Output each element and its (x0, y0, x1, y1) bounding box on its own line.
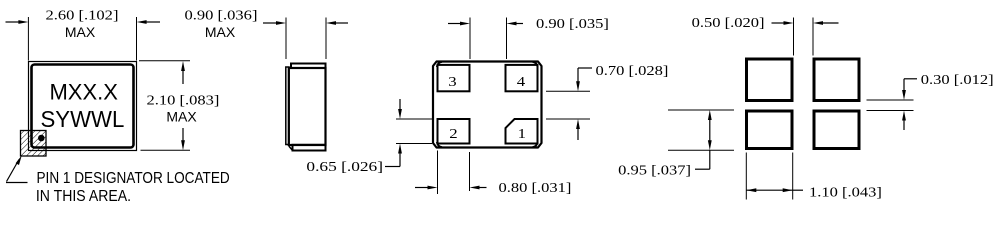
side view body (289, 68, 326, 145)
svg-text:3: 3 (448, 74, 457, 89)
svg-text:1: 1 (518, 126, 526, 141)
marking text SYWWL (40, 107, 124, 132)
svg-text:2.60 [.102]: 2.60 [.102] (46, 7, 119, 23)
bottom view outline with castellated corners (433, 62, 542, 148)
svg-text:MAX: MAX (166, 109, 197, 125)
land pattern pad bottom-left (747, 111, 793, 149)
leader arrow to pin 1 area (6, 155, 28, 182)
dimension 0.90 pad gap (448, 16, 609, 59)
side view lid (291, 64, 326, 69)
land pattern pad top-left (747, 59, 793, 101)
svg-text:MAX: MAX (205, 24, 236, 40)
svg-text:0.90 [.035]: 0.90 [.035] (536, 16, 609, 32)
pin 1 designator hatched square (21, 131, 47, 157)
svg-text:0.95 [.037]: 0.95 [.037] (618, 163, 691, 179)
svg-text:2.10 [.083]: 2.10 [.083] (147, 93, 220, 109)
note text PIN 1 DESIGNATOR (36, 170, 230, 205)
dimension 0.80 pad width (415, 151, 571, 196)
land pattern pad top-right (814, 59, 859, 101)
land pattern pad bottom-right (814, 111, 859, 149)
svg-text:0.65 [.026]: 0.65 [.026] (306, 160, 383, 175)
svg-text:4: 4 (517, 74, 526, 89)
dimension 0.90 MAX side view width (185, 7, 348, 59)
dimension 0.95 pad height land (618, 110, 734, 178)
svg-text:2: 2 (449, 126, 457, 141)
svg-text:MAX: MAX (65, 24, 96, 40)
dimension 1.10 pad width land (746, 153, 882, 201)
dimension 0.30 row gap (867, 72, 994, 130)
side view left end cap (286, 67, 289, 145)
pad 1 with chamfer (506, 119, 538, 144)
side view bottom lip (289, 145, 326, 151)
top view outer outline (29, 62, 137, 151)
svg-text:PIN 1 DESIGNATOR LOCATED: PIN 1 DESIGNATOR LOCATED (37, 170, 230, 187)
svg-text:0.70 [.028]: 0.70 [.028] (596, 63, 669, 79)
pad 2 (438, 119, 470, 144)
svg-text:SYWWL: SYWWL (40, 107, 124, 132)
marking text MXX.X (49, 79, 118, 104)
svg-text:0.50 [.020]: 0.50 [.020] (692, 15, 765, 31)
dimension 2.10 height (139, 61, 219, 151)
top view inner body outline (32, 65, 134, 148)
dimension 0.70 pad row gap (546, 63, 668, 140)
svg-text:0.30 [.012]: 0.30 [.012] (921, 72, 994, 88)
pad 4 (506, 65, 538, 91)
svg-text:IN THIS AREA.: IN THIS AREA. (36, 187, 131, 205)
svg-text:MXX.X: MXX.X (49, 79, 118, 104)
svg-text:0.90 [.036]: 0.90 [.036] (185, 7, 258, 23)
svg-text:1.10 [.043]: 1.10 [.043] (809, 185, 882, 201)
pad 3 (438, 65, 470, 91)
svg-text:0.80 [.031]: 0.80 [.031] (499, 180, 572, 196)
dimension 2.60 width (6, 7, 161, 60)
dimension 0.65 pad height (306, 99, 432, 175)
dimension 0.50 column gap (692, 15, 839, 55)
